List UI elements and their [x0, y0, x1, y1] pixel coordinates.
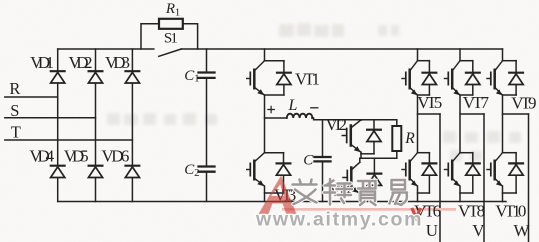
svg-text:S: S [10, 101, 19, 120]
svg-text:VD2: VD2 [69, 53, 93, 72]
svg-text:1: 1 [194, 73, 200, 85]
svg-text:VD5: VD5 [64, 146, 89, 165]
svg-text:VT5: VT5 [417, 93, 442, 112]
svg-text:R: R [404, 130, 415, 147]
svg-text:2: 2 [194, 167, 200, 179]
svg-text:VD4: VD4 [29, 146, 54, 165]
svg-text:VD6: VD6 [102, 146, 130, 165]
svg-text:VT10: VT10 [495, 202, 526, 221]
svg-text:VT7: VT7 [463, 93, 490, 112]
svg-text:R: R [9, 79, 20, 98]
svg-text:S1: S1 [164, 31, 178, 47]
svg-text:VT2: VT2 [326, 115, 348, 134]
svg-text:W: W [514, 221, 531, 240]
svg-text:1: 1 [175, 7, 181, 19]
svg-text:R: R [165, 1, 175, 17]
svg-text:L: L [288, 97, 298, 114]
svg-text:T: T [11, 122, 21, 141]
svg-text:VT9: VT9 [511, 94, 536, 113]
svg-text:VD1: VD1 [30, 53, 54, 72]
svg-text:VD3: VD3 [105, 53, 130, 72]
svg-text:VT1: VT1 [295, 70, 320, 89]
svg-text:VT8: VT8 [458, 202, 485, 221]
svg-text:www.aitmy.com: www.aitmy.com [255, 208, 422, 230]
svg-text:U: U [426, 221, 438, 240]
svg-text:V: V [472, 221, 485, 240]
svg-text:C: C [303, 153, 314, 169]
